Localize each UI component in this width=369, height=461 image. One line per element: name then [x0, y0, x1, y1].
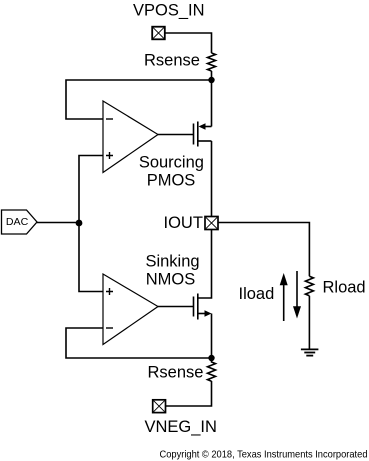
arrow Iload up [280, 273, 288, 321]
wire op-amp U2 output to NMOS gate [158, 306, 194, 308]
svg-text:Rsense: Rsense [148, 364, 204, 382]
svg-text:Sinking: Sinking [145, 252, 199, 270]
svg-text:Rsense: Rsense [144, 52, 200, 70]
svg-text:Rload: Rload [323, 279, 366, 297]
svg-text:VNEG_IN: VNEG_IN [145, 418, 217, 436]
resistor Rsense (top) [208, 53, 216, 71]
svg-text:IOUT: IOUT [164, 214, 203, 232]
node DAC junction dot [76, 220, 83, 227]
terminal VNEG_IN [153, 400, 166, 413]
op-amp U1 (sourcing) [103, 101, 158, 173]
wire feedback bottom op-amp [66, 328, 212, 358]
svg-text:Copyright © 2018, Texas Instru: Copyright © 2018, Texas Instruments Inco… [160, 450, 368, 461]
wire PMOS drain to IOUT [211, 141, 213, 217]
DAC flag [2, 210, 38, 234]
svg-text:PMOS: PMOS [147, 172, 196, 190]
svg-text:NMOS: NMOS [146, 270, 196, 288]
node junction dot top [208, 77, 214, 83]
wire op-amp U1 output to PMOS gate [158, 134, 194, 136]
wire IOUT to NMOS drain [198, 230, 212, 299]
wire resistor to VNEG terminal [166, 381, 212, 406]
wire NMOS source to bottom junction [211, 314, 213, 359]
svg-text:Iload: Iload [239, 285, 275, 303]
wire DAC to node [37, 222, 79, 224]
svg-text:Sourcing: Sourcing [139, 154, 204, 172]
svg-text:DAC: DAC [6, 216, 29, 228]
wire plus input top op-amp [79, 156, 103, 292]
node junction dot bottom [208, 355, 214, 361]
terminal VPOS_IN [152, 27, 165, 40]
wire IOUT to load branch [218, 223, 309, 277]
resistor Rsense (bottom) [208, 358, 216, 381]
op-amp U2 (sinking) [103, 274, 158, 345]
wire feedback top op-amp [66, 80, 212, 119]
wire VPOS terminal to top rail [165, 33, 212, 53]
arrow Iload down [293, 271, 301, 319]
ground [301, 349, 319, 355]
wire Rload to ground [308, 296, 310, 350]
transistor PMOS Q1 [194, 122, 212, 147]
transistor NMOS Q2 [194, 294, 206, 320]
resistor Rload [305, 276, 313, 295]
svg-text:VPOS_IN: VPOS_IN [133, 2, 205, 20]
terminal IOUT [205, 217, 218, 230]
wire resistor to PMOS source [211, 71, 213, 127]
